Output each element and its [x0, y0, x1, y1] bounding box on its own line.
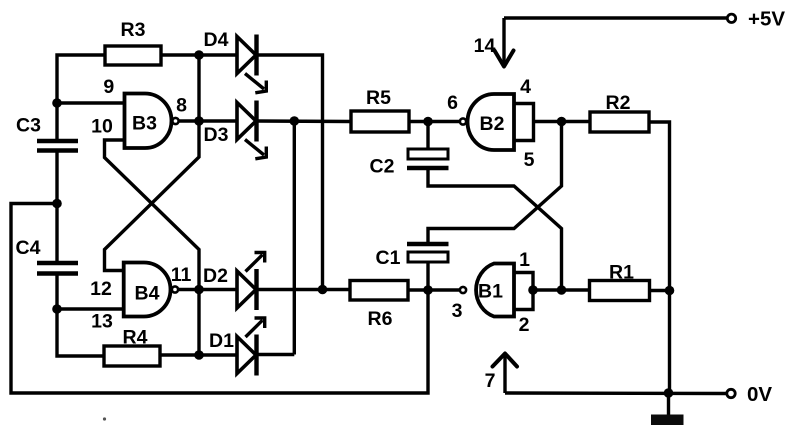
LED D2 — [237, 253, 265, 311]
svg-text:D3: D3 — [204, 124, 229, 146]
svg-text:B1: B1 — [478, 281, 503, 303]
junction — [557, 285, 567, 295]
svg-text:D1: D1 — [209, 330, 234, 352]
input bracket B2 — [514, 104, 534, 141]
wire pin 13 — [57, 307, 124, 310]
wire cross-couple B3out to B4 input — [105, 121, 200, 271]
output bubble B3 — [172, 118, 178, 124]
svg-text:R2: R2 — [606, 92, 631, 114]
wire B1 inputs to R1 — [533, 288, 590, 291]
svg-text:10: 10 — [91, 116, 113, 138]
NAND gate B4 — [124, 263, 171, 317]
svg-text:+5V: +5V — [748, 8, 785, 31]
svg-text:C2: C2 — [370, 156, 395, 178]
svg-text:C1: C1 — [376, 247, 401, 269]
junction — [290, 116, 300, 126]
svg-text:R4: R4 — [123, 327, 148, 349]
wire B4out node down to R4/D1 — [197, 290, 200, 356]
wire D4 cathode down to D2 row — [257, 55, 323, 290]
pin 7 arrow — [493, 354, 518, 394]
wire +5V rail — [504, 16, 728, 19]
wire R2 to right rail — [649, 122, 670, 393]
junction — [194, 285, 204, 295]
resistor R4 — [104, 346, 160, 366]
resistor R3 — [105, 46, 161, 65]
wire C3/C4 tap to B1 input node — [11, 204, 428, 394]
resistor R2 — [590, 112, 649, 132]
junction — [423, 285, 433, 295]
wire C3 to C4 — [55, 151, 58, 264]
svg-text:11: 11 — [171, 264, 192, 286]
junction — [194, 50, 204, 60]
junction — [52, 304, 62, 314]
svg-text:R3: R3 — [121, 19, 146, 41]
wire C4 to R4 — [57, 274, 104, 357]
junction — [52, 98, 62, 108]
svg-text:9: 9 — [103, 76, 114, 98]
scan speck — [103, 417, 106, 420]
svg-text:14: 14 — [474, 35, 496, 57]
svg-text:4: 4 — [520, 76, 531, 98]
wire pin 9 — [57, 101, 125, 104]
wire R6 to B1 — [408, 288, 460, 291]
wire R3 left leg — [57, 55, 105, 141]
resistor R6 — [350, 281, 408, 301]
LED D3 — [237, 101, 266, 159]
resistor R5 — [351, 111, 409, 132]
junction — [665, 286, 675, 296]
svg-text:R1: R1 — [609, 262, 634, 284]
wire D2 cathode to R6 — [257, 288, 351, 291]
svg-text:0V: 0V — [747, 383, 772, 406]
output bubble B2 — [460, 118, 466, 124]
NAND gate B2 — [468, 94, 515, 150]
capacitor C3 — [37, 141, 78, 151]
NAND gate B1 — [476, 264, 514, 317]
wire R5 to B2 — [409, 120, 460, 123]
svg-text:B4: B4 — [135, 283, 160, 305]
junction — [318, 285, 328, 295]
capacitor C2 — [407, 122, 449, 169]
wire 0V rail — [505, 391, 728, 395]
svg-text:1: 1 — [519, 249, 530, 271]
LED D1 — [237, 318, 265, 376]
junction — [664, 388, 674, 398]
svg-text:B2: B2 — [480, 113, 505, 135]
svg-text:8: 8 — [176, 95, 187, 117]
junction — [528, 285, 538, 295]
svg-text:B3: B3 — [132, 113, 157, 135]
ground — [651, 393, 684, 425]
wire C2 cross to B1 output — [428, 168, 562, 290]
junction — [557, 117, 567, 127]
wire B3 output — [179, 119, 237, 122]
LED D4 — [237, 35, 266, 93]
NAND gate B3 — [125, 94, 172, 149]
svg-text:5: 5 — [524, 149, 535, 171]
resistor R1 — [590, 281, 650, 301]
junction — [194, 116, 204, 126]
wire B4 output — [179, 288, 238, 291]
svg-text:3: 3 — [452, 300, 463, 322]
wire D1 cathode — [257, 353, 295, 356]
output bubble B1 — [460, 287, 466, 293]
pin 14 arrow — [495, 18, 514, 67]
svg-text:D2: D2 — [203, 265, 228, 287]
terminal +5V — [727, 14, 735, 22]
svg-text:2: 2 — [519, 314, 530, 336]
svg-text:C4: C4 — [16, 237, 41, 259]
input bracket B1 — [514, 273, 533, 310]
wire top rail to D4 — [161, 53, 237, 56]
terminal 0V — [727, 389, 735, 397]
junction — [194, 350, 204, 360]
svg-text:13: 13 — [91, 311, 113, 333]
wire C1 cross to B2 output — [428, 122, 562, 245]
wire D3 cathode to R5 — [257, 119, 352, 123]
junction — [52, 199, 62, 209]
svg-text:7: 7 — [485, 370, 496, 392]
wire R4 to D1 — [160, 353, 237, 356]
svg-text:C3: C3 — [16, 115, 41, 137]
svg-text:R6: R6 — [368, 308, 393, 330]
wire cross-couple B4out to B3 pin 10 — [105, 140, 200, 290]
wire B3out node vertical — [197, 55, 200, 121]
wire B2 inputs to R2 — [534, 120, 591, 123]
svg-text:D4: D4 — [204, 29, 229, 51]
svg-text:12: 12 — [90, 278, 112, 300]
junction — [423, 117, 433, 127]
wire R1 to right rail — [650, 289, 670, 292]
capacitor C1 — [407, 244, 449, 290]
capacitor C4 — [37, 263, 78, 274]
svg-text:R5: R5 — [366, 87, 391, 109]
svg-text:6: 6 — [447, 92, 458, 114]
wire D3 node down to D1 — [293, 121, 296, 355]
output bubble B4 — [172, 286, 178, 292]
